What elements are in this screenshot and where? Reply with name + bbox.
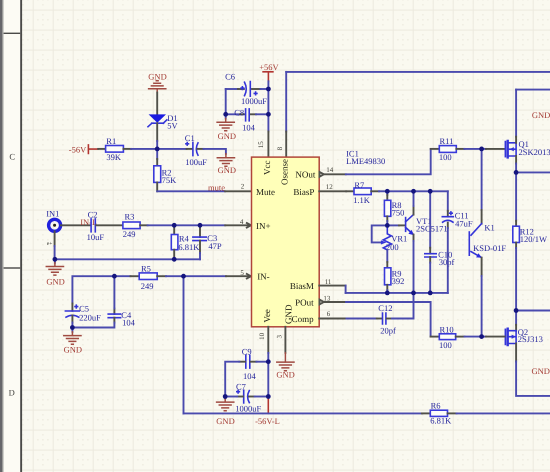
wire Q2 gate node to gate [482, 336, 486, 338]
pin R8 bottom [386, 216, 388, 221]
svg-text:IN1: IN1 [46, 209, 59, 219]
junction C7 right node [266, 394, 271, 399]
pin 8 stub [285, 132, 287, 158]
pin 10 stub [267, 327, 269, 353]
svg-text:392: 392 [392, 276, 405, 286]
wire C5 branch corner [72, 276, 114, 303]
svg-text:2SJ313: 2SJ313 [518, 334, 543, 344]
wire R10 to Q2 gate node [465, 336, 482, 338]
svg-text:120/1W: 120/1W [520, 234, 547, 244]
svg-text:6: 6 [327, 310, 331, 318]
transistor VT1 2SC5171 [406, 215, 415, 236]
wire C11 to bus corner [447, 228, 449, 293]
svg-text:-56V-L: -56V-L [255, 416, 280, 426]
svg-text:LME49830: LME49830 [346, 156, 385, 166]
svg-text:BiasP: BiasP [293, 187, 314, 197]
junction C3 top [198, 223, 203, 228]
transistor Q2 2SJ313 [505, 329, 516, 345]
junction +56V C6 node [266, 87, 271, 92]
wire VT1 collector to bias row [413, 191, 415, 206]
pin VT1 base [399, 224, 405, 226]
junction R7/R8 bias [385, 189, 390, 194]
wire R1 to D1 node [131, 148, 157, 150]
pin C10 top [429, 248, 431, 254]
wire VT1 emitter to bus [413, 241, 415, 293]
VR1 wiper loop wire [372, 225, 388, 242]
capacitor C9 plates [246, 355, 250, 368]
pin C6 left stub [238, 88, 244, 90]
svg-text:NOut: NOut [295, 170, 315, 180]
pin 5 IN- stub [226, 275, 252, 277]
junction VT1 base node [385, 223, 390, 228]
pin R9 top [386, 262, 388, 268]
resistor R10 [439, 334, 455, 340]
wire IN1 gnd stub [54, 259, 56, 263]
pin C9 left [239, 361, 245, 363]
capacitor C10 plates [425, 254, 436, 257]
wire Q1 source to node [515, 164, 517, 173]
junction Q1 source tap [514, 170, 519, 175]
svg-text:Osense: Osense [279, 159, 289, 185]
svg-text:1.1K: 1.1K [353, 195, 371, 205]
zener diode D1 [148, 114, 167, 126]
svg-text:e+: e+ [47, 241, 53, 247]
svg-text:Comp: Comp [292, 314, 315, 324]
capacitor C3 plates [193, 237, 206, 241]
junction C10 bus [428, 291, 433, 296]
ground symbol pin 3 [277, 362, 294, 371]
wire C4 column [113, 276, 115, 308]
sheet border left dark edge [0, 0, 2, 472]
pin R3 right [140, 224, 148, 226]
ground stub pin 3 [284, 353, 286, 362]
wire R11 to Q1 gate node [464, 148, 481, 150]
wire R3 to pin4 [148, 224, 226, 226]
wire gnd row [55, 258, 174, 260]
pin C11 bottom [447, 223, 449, 228]
pin C4 bottom [113, 318, 115, 323]
wire C6 gnd stub [225, 114, 227, 118]
wire node to C1 [157, 148, 186, 150]
wire K1 column upper [481, 149, 483, 210]
ground symbol C7 [217, 399, 234, 411]
wire Q2 source corner to right [516, 362, 550, 396]
svg-text:GND: GND [283, 304, 293, 324]
svg-text:GND: GND [532, 366, 550, 376]
pin C1 right [198, 148, 204, 150]
wire R5 row left [114, 275, 130, 277]
svg-text:C12: C12 [378, 303, 392, 313]
wire bias row to C10 [414, 190, 431, 192]
pin Q1 gate [486, 148, 505, 150]
svg-text:249: 249 [141, 281, 154, 291]
transistor Q1 2SK2013 [505, 141, 516, 158]
svg-text:Mute: Mute [256, 187, 275, 197]
svg-text:100: 100 [439, 340, 452, 350]
capacitor C8 plates [246, 109, 250, 121]
resistor R1 [106, 146, 124, 153]
VR1 wiper arrow [381, 240, 387, 244]
pin C6 right stub [252, 88, 261, 90]
wire C4 to bottom node [72, 323, 114, 328]
junction C5 bottom [70, 325, 75, 330]
capacitor C5 plates [65, 311, 79, 317]
pin Q1 drain [515, 137, 517, 143]
pin R7 right [371, 190, 379, 192]
resistor R6 [430, 410, 447, 416]
pin C10 bottom [429, 257, 431, 263]
pin 14 out arrow [320, 172, 324, 177]
capacitor C11 + mark [450, 212, 453, 215]
svg-text:R11: R11 [440, 136, 454, 146]
svg-text:D: D [9, 387, 15, 397]
capacitor C5 + mark [75, 305, 78, 308]
wire D1 to node [156, 141, 158, 149]
wire C5 node gnd stub [71, 328, 73, 332]
wire Q1 source tap right [516, 171, 550, 173]
junction IN- node [181, 274, 186, 279]
svg-text:R7: R7 [354, 180, 364, 190]
svg-text:75K: 75K [162, 175, 178, 185]
pin 4 IN+ stub [225, 224, 251, 226]
junction emitter bus [411, 291, 416, 296]
pin 15 stub [267, 132, 269, 158]
pin 11 BiasM stub [319, 285, 345, 287]
svg-text:C: C [9, 151, 15, 161]
svg-text:4: 4 [240, 218, 244, 226]
wire Q1 gate node to gate [482, 148, 486, 150]
junction R12 lower tap [514, 308, 519, 313]
sheet border row separator [4, 33, 21, 34]
pin R10 right [456, 336, 465, 338]
svg-text:Vcc: Vcc [262, 161, 272, 176]
pin IN1 to C2 [61, 224, 90, 226]
wire POut to corner [346, 302, 431, 337]
resistor R8 [384, 200, 390, 216]
wire node down to R12 [515, 172, 517, 220]
wire K1 column lower [481, 276, 483, 337]
pin K1 upper [481, 210, 483, 224]
svg-text:POut: POut [295, 298, 314, 308]
resistor R5 [139, 273, 157, 280]
pin R2 top [156, 159, 158, 166]
wire pin10 to C9 node [267, 353, 269, 362]
svg-text:GND: GND [64, 345, 82, 355]
pin C5 bottom [71, 315, 73, 322]
svg-text:249: 249 [123, 229, 136, 239]
junction C4 top [112, 274, 117, 279]
capacitor C2 plates [91, 219, 95, 232]
capacitor C7 plates [244, 390, 250, 403]
svg-text:47uF: 47uF [455, 219, 473, 229]
op-amp IC1 LME49830 body [252, 157, 320, 327]
svg-text:C7: C7 [236, 382, 246, 392]
ground symbol IN1 [46, 263, 63, 275]
svg-text:47P: 47P [208, 241, 222, 251]
wire node down to Q2 [515, 311, 517, 325]
svg-text:6.81K: 6.81K [178, 242, 200, 252]
pin R4 top [173, 225, 175, 234]
pin 5 arrow [247, 274, 251, 279]
resistor R9 [385, 268, 391, 285]
svg-text:GND: GND [532, 110, 550, 120]
wire R8 to base node [386, 221, 388, 225]
wire C6 left column down [225, 89, 227, 114]
wire R8 top [386, 191, 388, 195]
pin R6 left [422, 412, 430, 414]
capacitor C4 plates [108, 314, 120, 318]
wire R5 to IN- node [166, 275, 184, 277]
svg-text:C1: C1 [185, 133, 195, 143]
svg-text:30pf: 30pf [439, 257, 455, 267]
svg-text:8: 8 [276, 146, 284, 150]
capacitor C1 plates [193, 142, 198, 155]
svg-text:10: 10 [258, 332, 266, 340]
wire C7 left to gnd node [225, 396, 237, 398]
svg-text:GND: GND [46, 277, 64, 287]
svg-text:Vee: Vee [262, 309, 272, 323]
wire VR1 to R9 [386, 250, 388, 262]
pin C1 left [187, 148, 192, 150]
pin 4 arrow [247, 223, 251, 228]
wire BiasM bus [346, 292, 448, 294]
wire -56V-L vertical from IN- node [183, 276, 185, 413]
wire pin15 column [267, 89, 269, 132]
pin R12 bottom [515, 243, 517, 249]
junction C9 node [266, 359, 271, 364]
pin R5 left [131, 275, 140, 277]
wire R12 to lower node [515, 248, 517, 311]
svg-text:20pf: 20pf [380, 326, 396, 336]
wire C9 left corner down [225, 362, 239, 397]
wire NOut to R11 corner [346, 149, 431, 174]
wire C6 row left [226, 88, 238, 90]
pin 13 out arrow [320, 300, 324, 305]
pin C8 left stub [240, 113, 244, 115]
capacitor C1 + mark [186, 143, 189, 146]
wire C7 gnd stub [224, 397, 226, 399]
resistor R4 [171, 235, 178, 250]
junction Q2 gate [479, 334, 484, 339]
pin C9 right [251, 361, 257, 363]
wire -56V-L rail right [457, 412, 550, 414]
pin D1 bottom [156, 123, 158, 141]
pin R4 bottom [173, 250, 175, 260]
svg-text:IN-: IN- [257, 272, 270, 282]
svg-text:12: 12 [326, 183, 334, 191]
capacitor C6 plates [245, 82, 251, 97]
svg-text:+56V: +56V [259, 62, 279, 72]
pin 2 Mute stub [225, 190, 251, 192]
svg-text:GND: GND [148, 71, 166, 81]
svg-text:750: 750 [392, 208, 405, 218]
pin 3 stub [284, 327, 286, 353]
wire +56V rail drop to pin 8 [285, 72, 287, 132]
wire +56V rail to right edge [286, 71, 550, 73]
wire IN1 down to gnd row [54, 246, 56, 259]
pin 14 NOut stub [324, 173, 346, 175]
pin R8 top [386, 195, 388, 200]
svg-text:10uF: 10uF [87, 232, 105, 242]
svg-text:1000uF: 1000uF [235, 404, 261, 414]
svg-text:BiasM: BiasM [290, 281, 314, 291]
svg-text:K1: K1 [484, 223, 494, 233]
svg-text:5V: 5V [167, 121, 178, 131]
svg-text:14: 14 [326, 166, 334, 174]
capacitor C11 plates [442, 217, 453, 223]
power port -56V [69, 145, 98, 155]
pin VT1 collector [413, 206, 415, 215]
pin R7 left [346, 190, 354, 192]
pin C12 right [387, 318, 392, 320]
capacitor C12 plates [383, 313, 386, 324]
junction C7 left node [223, 394, 228, 399]
junction R4 top [172, 223, 177, 228]
svg-text:C6: C6 [225, 72, 235, 82]
junction VT1 collector [411, 189, 416, 194]
svg-text:6.81K: 6.81K [430, 416, 452, 426]
sheet border row separator [4, 267, 21, 268]
junction C8 left [223, 112, 228, 117]
thermal switch K1 KSD-01F [469, 224, 482, 258]
pin C2 to R3 [96, 224, 123, 226]
wire lower tap right [516, 310, 550, 312]
svg-text:15: 15 [257, 141, 265, 149]
pin 6 Comp stub [319, 318, 346, 320]
svg-text:-56V: -56V [69, 145, 87, 155]
wire gnd row to C3 [174, 258, 200, 260]
pin C7 right [249, 396, 255, 398]
svg-text:3: 3 [275, 334, 283, 338]
svg-text:R10: R10 [440, 324, 454, 334]
wire C1 to gnd corner [204, 149, 226, 154]
svg-text:R6: R6 [431, 400, 441, 410]
junction C8 right [266, 112, 271, 117]
sheet border margin strip [4, 0, 21, 472]
svg-text:KSD-01F: KSD-01F [473, 243, 506, 253]
wire C10 to bus [429, 263, 431, 293]
junction IN1 gnd row [53, 257, 58, 262]
svg-text:C9: C9 [242, 347, 252, 357]
svg-text:R5: R5 [141, 264, 151, 274]
svg-text:104: 104 [122, 318, 136, 328]
svg-text:2SK2013: 2SK2013 [519, 147, 550, 157]
svg-text:R1: R1 [106, 136, 116, 146]
wire C8 row left [226, 113, 240, 115]
junction Q1 gate [479, 147, 484, 152]
pin R6 right [448, 412, 457, 414]
wire R9 to bus [386, 290, 388, 293]
pin Q2 gate [486, 336, 505, 338]
pin 13 POut stub [324, 301, 346, 303]
pin R11 left [431, 148, 440, 150]
pin R1 left [98, 148, 105, 150]
pin C5 top [71, 304, 73, 311]
svg-text:104: 104 [242, 123, 256, 133]
sheet border vertical line [20, 0, 22, 472]
pin C8 right stub [251, 113, 256, 115]
pin IN1 bottom [54, 231, 56, 246]
ground symbol right of C1 [217, 154, 234, 167]
svg-text:IN+: IN+ [256, 221, 271, 231]
capacitor C7 + mark [237, 390, 240, 393]
svg-text:GND: GND [218, 165, 236, 175]
capacitor C6 + mark [254, 92, 257, 95]
pin R12 top [515, 221, 517, 226]
svg-text:C2: C2 [88, 210, 98, 220]
pin C3 top [199, 225, 201, 237]
pin R10 left [431, 336, 440, 338]
svg-text:39K: 39K [106, 152, 122, 162]
pin C3 bottom [199, 241, 201, 253]
junction R1/D1/C1/R2 [155, 147, 160, 152]
pin C7 left [237, 396, 243, 398]
ground symbol above D1 (flipped) [149, 81, 166, 93]
pin Q1 source [515, 156, 517, 164]
svg-text:GND: GND [218, 131, 236, 141]
svg-text:1000uF: 1000uF [241, 96, 267, 106]
wire Comp to C12 [347, 318, 377, 320]
svg-text:104: 104 [243, 371, 257, 381]
wire R7 to bias node [379, 190, 387, 192]
capacitor C6 left + mark [241, 87, 244, 90]
svg-text:5: 5 [240, 269, 244, 277]
pin K1 lower [481, 258, 483, 276]
wire C8 row right [256, 113, 268, 115]
junction C10 top [428, 189, 433, 194]
wire mute row [157, 190, 225, 192]
wire C5 to bottom node [71, 323, 73, 328]
wire C7 right to node [255, 396, 269, 398]
potentiometer VR1 [383, 225, 391, 250]
wire IN- node to pin5 [184, 275, 227, 277]
svg-text:GND: GND [216, 416, 234, 426]
wire VT1 base [387, 224, 399, 226]
svg-text:220uF: 220uF [79, 313, 101, 323]
pin R11 right [456, 148, 464, 150]
connector IN1 [49, 219, 61, 231]
ground symbol C5 [64, 332, 81, 344]
pin C12 left [377, 318, 382, 320]
wire bias row to C11 [430, 190, 448, 192]
svg-text:2: 2 [241, 183, 245, 191]
wire C9 right to node [256, 361, 268, 363]
wire R2 top [156, 149, 158, 159]
wire bias row to VT1 collector [387, 190, 413, 192]
junction R4 bottom [172, 257, 177, 262]
resistor R7 [354, 188, 371, 195]
wire C12 to bus riser [392, 293, 414, 319]
wire C9 node down to C7 node [267, 362, 269, 397]
pin R2 bottom [156, 182, 158, 191]
resistor R3 [123, 222, 140, 229]
wire BiasM step down [345, 286, 347, 293]
pin R5 right [157, 275, 166, 277]
wire C11 column top [447, 191, 449, 211]
pin C11 top [447, 211, 449, 217]
pin 12 BiasP stub [319, 190, 346, 192]
svg-text:100: 100 [439, 152, 452, 162]
svg-text:mute: mute [208, 183, 225, 193]
resistor R12 [513, 226, 520, 242]
svg-text:100uF: 100uF [185, 157, 207, 167]
junction R9 bus [385, 291, 390, 296]
pin R9 bottom [386, 285, 388, 290]
svg-text:2SC5171: 2SC5171 [416, 224, 448, 234]
wire C10 column top [429, 191, 431, 247]
svg-text:R3: R3 [125, 212, 135, 222]
pin R1 right [123, 148, 131, 150]
